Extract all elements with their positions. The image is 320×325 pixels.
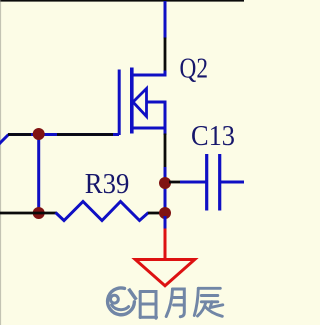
node junction dot at source/C13 [159,177,171,189]
svg-text:R39: R39 [85,169,130,200]
wire: resistor right black stub [148,212,161,215]
watermark text 日 [140,292,156,319]
ground stem red [164,229,167,260]
wire: left vertical between nodes [37,134,40,213]
wire: top vertical black overlay segment [164,38,167,72]
resistor R39 zigzag [56,202,149,221]
wire: vertical between right nodes [164,183,167,213]
wire: gate net diagonal at left edge [0,135,9,145]
watermark text 辰 [194,288,223,316]
watermark text 月 [166,289,184,317]
svg-text:C13: C13 [191,121,235,152]
wire: top vertical blue (net to Q2 drain) [164,1,167,39]
wire: source vertical black overlay [164,134,167,169]
wire: gate net horizontal black overlay left [8,133,31,136]
transistor Q2 gate bar [118,70,121,136]
capacitor C13 right plate [218,154,221,211]
wire: C13 lead blue [180,181,206,184]
capacitor C13 left plate [205,154,208,211]
transistor Q2 bulk arrow [133,89,147,117]
top border line [0,0,244,2]
wire: C13 lead black stub [169,181,181,184]
transistor Q2 channel bar [130,68,134,134]
svg-text:Q2: Q2 [180,54,209,85]
node junction dot lower-left [33,207,45,219]
transistor Q2 bulk lead [147,102,166,128]
node junction dot at R39/ground [159,207,171,219]
transistor Q2 (NMOS) drain lead [131,71,165,76]
transistor Q2 source lead [131,128,165,135]
wire: gate net horizontal blue [8,133,119,136]
wire: C13 right lead blue [221,181,244,184]
left border line [0,0,1,325]
wire: ground blue stub below node [164,216,167,230]
wire: bottom horizontal black [0,212,57,215]
wire: gate net horizontal black overlay right [57,133,113,136]
watermark logo circle [108,288,137,315]
node junction dot upper-left [33,128,45,140]
ground triangle [135,260,194,286]
wire: source vertical blue into node [164,167,167,184]
